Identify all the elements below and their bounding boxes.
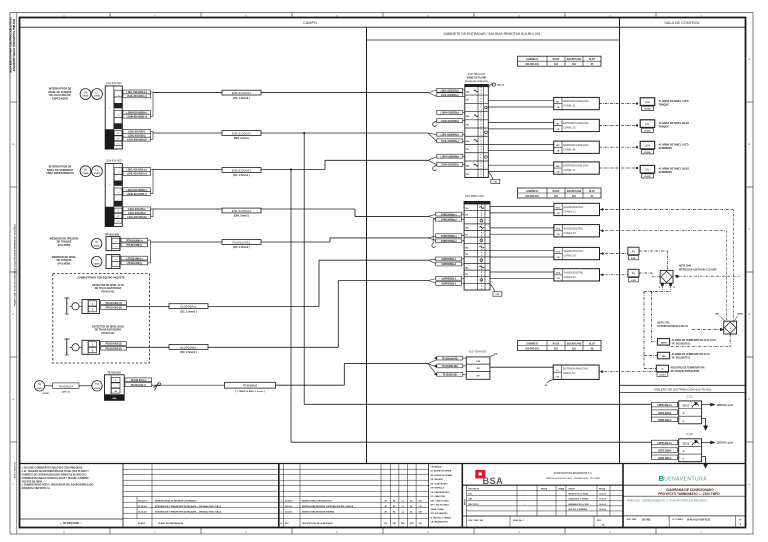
JB3b terminal - xyxy=(112,261,120,266)
drawing title area line xyxy=(623,495,746,497)
svg-text:3: 3 xyxy=(281,500,282,502)
DO ch3 to FY1 xyxy=(600,253,628,255)
svg-text:(DC. 2.5mm2 ): (DC. 2.5mm2 ) xyxy=(233,246,250,249)
junction box JB2 xyxy=(105,163,122,226)
wire tag TE-010- xyxy=(125,383,152,387)
cable TRIAD xyxy=(225,382,276,388)
svg-text:CB: INTERRUPTOR: CB: INTERRUPTOR xyxy=(431,522,449,524)
svg-text:810-RIO-001: 810-RIO-001 xyxy=(525,196,539,198)
svg-text:SALIDA DIGITAL: SALIDA DIGITAL xyxy=(564,270,584,274)
svg-text:GABINETE: GABINETE xyxy=(526,58,538,61)
wire w4 fork xyxy=(428,214,437,216)
svg-text:GABINETE: GABINETE xyxy=(526,190,538,193)
svg-text:CESAR ROJ. C. ROJAS: CESAR ROJ. C. ROJAS xyxy=(569,498,590,501)
svg-text:( 1 TRIAD 16 AWG. 1.5mm2 ): ( 1 TRIAD 16 AWG. 1.5mm2 ) xyxy=(235,390,265,393)
svg-text:PLANO DE REFERENCIA: PLANO DE REFERENCIA xyxy=(158,522,183,525)
svg-text:PLANO CAD: W-410-610-I-DW-0012: PLANO CAD: W-410-610-I-DW-00122-4.dwg FE… xyxy=(13,224,16,306)
TGAI signal to DCS xyxy=(599,371,656,373)
wire TE fork xyxy=(428,360,437,364)
svg-text:BSA: BSA xyxy=(483,476,504,486)
JB2 terminal 1+ xyxy=(114,168,122,175)
svg-text:SALIDA DIGITAL: SALIDA DIGITAL xyxy=(564,205,584,209)
card2 strip row lines xyxy=(464,210,490,212)
JB1 terminal 2SH xyxy=(114,124,122,129)
wire tag PD-002-2 xyxy=(101,346,127,350)
svg-text:PIT-610-008: PIT-610-008 xyxy=(105,232,120,236)
left margin strip line xyxy=(16,13,18,535)
right zone ticks xyxy=(746,101,754,103)
JB3a terminal + xyxy=(112,238,120,243)
svg-text:C-13: C-13 xyxy=(686,394,693,398)
svg-text:1. SE DEBE CONSIDERAR CABLEAD: 1. SE DEBE CONSIDERAR CABLEADO CON ARMAD… xyxy=(22,467,84,470)
margin file text (rotated) xyxy=(13,224,16,306)
svg-text:LIT-610-009-(-): LIT-610-009-(-) xyxy=(127,261,143,265)
svg-text:CONSIDERAN CABLES APANTALLADOS: CONSIDERAN CABLES APANTALLADOS Y SEGUN L… xyxy=(22,477,90,480)
svg-text:PD-610-001: PD-610-001 xyxy=(102,290,116,293)
wire TE segment c xyxy=(344,363,428,365)
svg-text:CANAL 05: CANAL 05 xyxy=(563,147,576,151)
svg-text:610-TBDO-001: 610-TBDO-001 xyxy=(465,194,484,198)
JB4 terminal 2 xyxy=(111,383,120,388)
revision table B columns xyxy=(283,464,285,528)
svg-text:TN: TN xyxy=(466,174,469,176)
svg-text:610P00058b-2: 610P00058b-2 xyxy=(441,283,456,286)
wire tag LSHL-005A+ xyxy=(123,168,151,172)
svg-text:610008: 610008 xyxy=(94,245,100,247)
svg-text:CAMPO: CAMPO xyxy=(303,21,317,25)
svg-text:610P00058b-1: 610P00058b-1 xyxy=(441,277,456,280)
DCS alarm block LAH 1 xyxy=(640,98,655,106)
AI tag ch4- xyxy=(437,162,463,166)
svg-text:TAHH: TAHH xyxy=(737,313,743,316)
svg-text:GND: GND xyxy=(112,398,117,400)
svg-text:AREA 610 - ESPESAMIENTO Y TRAN: AREA 610 - ESPESAMIENTO Y TRANSPORTE DE … xyxy=(627,499,708,503)
svg-text:GABINETE: GABINETE xyxy=(526,342,538,345)
wire tag LSHL-005A- xyxy=(123,171,151,175)
JB2 terminal 1- xyxy=(114,175,122,181)
cable package1 xyxy=(169,304,208,309)
svg-text:610005: 610005 xyxy=(94,173,100,175)
interlock bus riser A xyxy=(651,292,653,342)
card3 terminal strip xyxy=(466,357,490,379)
svg-text:EMITIDO PARA REVISION Y APROBA: EMITIDO PARA REVISION Y APROBACION DEL C… xyxy=(302,505,354,508)
svg-text:TE-610010+RD: TE-610010+RD xyxy=(442,357,458,360)
cable EIB-810004-2 xyxy=(222,131,261,136)
top zone ticks xyxy=(109,13,111,18)
svg-text:S/E IND.: S/E IND. xyxy=(642,519,651,521)
instrument TE 610-010 xyxy=(34,381,44,391)
svg-text:(MTC 2): (MTC 2) xyxy=(62,391,70,393)
title area divider xyxy=(623,484,746,486)
svg-text:CANAL 01: CANAL 01 xyxy=(563,371,576,375)
margin revision text top-left (rotated) xyxy=(10,17,16,73)
AI tag ch1- xyxy=(437,93,463,97)
card1 strip dashed bus xyxy=(480,87,482,178)
wire JB4 to cable xyxy=(152,384,160,386)
svg-text:W0-04-713: W0-04-713 xyxy=(138,499,147,502)
svg-text:CM: CM xyxy=(419,500,422,502)
svg-text:(DC. 2.5mm2 ): (DC. 2.5mm2 ) xyxy=(233,97,250,100)
wire w1 segment b xyxy=(261,92,428,94)
AI channel box 4 xyxy=(554,162,600,174)
package device1 terminals xyxy=(82,300,100,314)
alarm block TAHH xyxy=(657,339,669,346)
svg-text:SALIDA DIGITAL: SALIDA DIGITAL xyxy=(564,249,584,253)
instrument LM 610-005 xyxy=(80,166,91,177)
wire tag LSHL-005-2 xyxy=(123,211,151,215)
DCS alarm block LAH 3 xyxy=(640,141,655,149)
svg-text:REV.: REV. xyxy=(285,523,290,525)
TGAI tag arrows xyxy=(434,357,437,359)
svg-text:12-05-16: 12-05-16 xyxy=(599,509,606,511)
svg-text:TAHH: TAHH xyxy=(661,341,667,344)
svg-text:PROYECTO TAMBOMAYO — 2100: PROYECTO TAMBOMAYO — 2100 TMPD xyxy=(658,492,720,496)
svg-text:TE-610010-SH: TE-610010-SH xyxy=(442,373,457,376)
svg-text:(DHL 5mm2 ): (DHL 5mm2 ) xyxy=(234,215,250,218)
svg-text:GABINETE DE ENTRADAS / SALIDAS: GABINETE DE ENTRADAS / SALIDAS REMOTAS 8… xyxy=(443,32,540,36)
BSA table frame xyxy=(462,484,623,486)
cable bracket group3 xyxy=(148,240,151,263)
svg-text:TRIAD: TERNA: TRIAD: TERNA xyxy=(431,508,445,511)
svg-text:G: G xyxy=(683,459,685,461)
rack table card2 xyxy=(518,188,602,198)
svg-text:N: NEUTRO G: TIERRA: N: NEUTRO G: TIERRA xyxy=(431,516,452,519)
cable EIB-810004-3 xyxy=(222,168,261,173)
svg-text:SV/B100059a-1: SV/B100059a-1 xyxy=(441,235,458,238)
instrument TW 610-010 xyxy=(92,381,102,391)
svg-text:810-RIO-001: 810-RIO-001 xyxy=(525,348,539,350)
wire w5 riser xyxy=(329,238,331,242)
svg-text:G: G xyxy=(683,421,685,423)
card2 strip dashed bus xyxy=(480,204,482,290)
svg-text:LSHH-610-002B-(-): LSHH-610-002B-(-) xyxy=(127,114,148,118)
junction box JB1 xyxy=(105,86,122,149)
instrument LL 610-005 xyxy=(92,166,103,177)
svg-text:61005: 61005 xyxy=(631,280,636,282)
card1 fuse 250mA xyxy=(488,84,493,87)
svg-text:11-05-16: 11-05-16 xyxy=(599,499,606,501)
svg-text:EMISION INICIAL DE REVISION CO: EMISION INICIAL DE REVISION CONTINUADO xyxy=(155,499,197,502)
svg-text:N° PLANO:: N° PLANO: xyxy=(673,518,684,521)
svg-text:SH: PANTALLA: SH: PANTALLA xyxy=(431,487,445,490)
wire w2 segment a xyxy=(153,132,222,134)
svg-text:DIB.: DIB. xyxy=(469,499,473,501)
svg-text:ARMANDO RUI. A. RUIZ: ARMANDO RUI. A. RUIZ xyxy=(569,503,590,506)
svg-text:REV. PROY.: REV. PROY. xyxy=(469,504,480,506)
svg-text:TW: TW xyxy=(95,382,100,386)
svg-text:C1R: C1R xyxy=(476,361,481,363)
svg-text:SLOT: SLOT xyxy=(589,59,596,61)
wire tag PD-002-1 xyxy=(101,342,127,346)
svg-text:DHL: CABLE DOBLE: DHL: CABLE DOBLE xyxy=(431,499,450,502)
svg-text:LSHL-610002A(+): LSHL-610002A(+) xyxy=(441,89,460,92)
svg-text:PROYECTO: PROYECTO xyxy=(469,489,480,491)
DO ch4 wires xyxy=(490,271,554,273)
JB2 terminal 1SH xyxy=(114,181,122,186)
svg-text:TN: TIERRA-NEUTRO: TN: TIERRA-NEUTRO xyxy=(431,491,450,494)
gabinete header box xyxy=(367,39,620,41)
svg-text:CB-13: CB-13 xyxy=(682,405,689,407)
svg-text:SUMINISTRADO CON EQUIPO PAQUET: SUMINISTRADO CON EQUIPO PAQUETE xyxy=(77,277,125,280)
wire w3 segment c xyxy=(325,159,428,161)
package device2 sensor xyxy=(72,344,79,351)
wire package1 fork xyxy=(428,259,437,260)
svg-text:23-02-16: 23-02-16 xyxy=(285,511,293,513)
svg-text:610002: 610002 xyxy=(644,108,650,110)
JB3a terminal - xyxy=(112,243,120,248)
svg-text:610-TGAI-003: 610-TGAI-003 xyxy=(469,349,487,353)
svg-text:LSHL-610-005A-(-): LSHL-610-005A-(-) xyxy=(127,172,147,176)
wire tag LSHL-002A- xyxy=(123,94,151,98)
JB1 terminal 1- xyxy=(114,97,122,103)
interlock riser right2 xyxy=(726,231,728,322)
card1 shield circles xyxy=(485,106,488,109)
svg-text:120VAC φ1A: 120VAC φ1A xyxy=(717,403,733,407)
svg-text:ARCH: W410-610: ARCH: W410-610 xyxy=(13,461,16,478)
JB2 terminal 3-G xyxy=(114,219,122,224)
svg-text:TN: TN xyxy=(466,124,469,126)
cable EIB-810004-4 xyxy=(222,208,261,213)
svg-text:FY: FY xyxy=(632,273,635,276)
rack table card1 xyxy=(518,56,602,66)
svg-text:LSH-610-002: LSH-610-002 xyxy=(106,81,122,85)
margin archive text (rotated) xyxy=(13,461,16,478)
JB2 terminal 3-1 xyxy=(114,208,122,213)
svg-text:AREA ESPESAMIENTO: AREA ESPESAMIENTO xyxy=(46,171,74,175)
wire w3 junction xyxy=(290,169,292,171)
JB1 terminal 3-G xyxy=(114,141,122,146)
card2 bottom fuse tag xyxy=(490,284,495,292)
svg-text:CONTINUACION-610-003-02: CONTINUACION-610-003-02 xyxy=(657,325,688,328)
svg-text:250mA: 250mA xyxy=(497,84,504,87)
cable bracket group2 xyxy=(151,170,154,194)
svg-text:REV.: REV. xyxy=(597,520,602,522)
wire package2 segment c xyxy=(338,280,428,282)
JB4 terminal 3 xyxy=(111,389,120,394)
wire tag PIT-008- xyxy=(121,243,148,247)
AI ch4 signal to DCS xyxy=(599,167,637,169)
svg-text:ESC. REF.: ESC. REF. xyxy=(627,519,637,521)
wire w4 segment b xyxy=(261,208,355,210)
svg-text:LMTE 332-G: LMTE 332-G xyxy=(658,418,672,422)
AI channel box 2 xyxy=(554,119,600,131)
wire tag LSHH-005B+ xyxy=(123,188,151,192)
svg-text:ENTRADA ANALOGA: ENTRADA ANALOGA xyxy=(563,143,589,147)
instrument LL 610-002 xyxy=(92,89,103,100)
TGAI tag 2 xyxy=(437,364,463,368)
svg-text:PD-610-002: PD-610-002 xyxy=(102,332,116,335)
wire TE to cable xyxy=(45,385,53,387)
svg-text:CANAL 07: CANAL 07 xyxy=(563,168,576,172)
svg-text:LSHL-610-005-1: LSHL-610-005-1 xyxy=(128,207,146,211)
svg-text:610005: 610005 xyxy=(644,176,650,178)
cable tag MTC xyxy=(53,383,79,388)
svg-text:CM: CM xyxy=(419,506,422,508)
svg-text:SV/B100058a-2: SV/B100058a-2 xyxy=(441,218,458,221)
svg-text:W-410-610-I-DW-0122: W-410-610-I-DW-0122 xyxy=(687,518,711,521)
alarm block TAH xyxy=(657,352,669,359)
wire tag LIT-009+ xyxy=(121,256,148,260)
svg-text:610005: 610005 xyxy=(644,152,650,154)
wire w1 fork to tags xyxy=(428,90,437,93)
svg-text:BACKPLANE: BACKPLANE xyxy=(567,342,582,345)
interlock reference line xyxy=(678,275,740,277)
AI tag stubs xyxy=(463,89,465,91)
svg-text:810P008b1: 810P008b1 xyxy=(180,345,197,349)
svg-text:APROBADO SEGUN TRANSMITTAL TMB: APROBADO SEGUN TRANSMITTAL TMB-0643 xyxy=(13,18,16,71)
wire package1 riser xyxy=(318,260,320,306)
svg-text:RACK: RACK xyxy=(553,342,560,345)
wire w3 segment a xyxy=(153,169,222,171)
svg-text:ENTRADA ANALOGA: ENTRADA ANALOGA xyxy=(563,164,589,168)
svg-text:LSHH-610002B(-): LSHH-610002B(-) xyxy=(441,120,459,123)
svg-text:610P00058a-2: 610P00058a-2 xyxy=(441,263,456,266)
svg-text:PIT-610-008-(+): PIT-610-008-(+) xyxy=(126,238,143,242)
wire package2 fork xyxy=(428,279,437,281)
wire w1 segment a xyxy=(153,92,222,94)
svg-text:REGISTRO DE TEMPERATURA: REGISTRO DE TEMPERATURA xyxy=(671,366,705,369)
svg-text:TE-610-010-(+): TE-610-010-(+) xyxy=(130,378,146,382)
JB1 terminal 2- xyxy=(114,117,122,123)
wire cable to TW xyxy=(79,385,92,387)
svg-text:TANQUE: TANQUE xyxy=(659,126,670,129)
BSA bottom row xyxy=(462,515,623,517)
wire tag LSHH-005B- xyxy=(123,192,151,196)
svg-text:ALARMA DE TEMPERATURA ALTA: ALARMA DE TEMPERATURA ALTA xyxy=(672,353,710,356)
svg-text:610010: 610010 xyxy=(94,388,100,390)
svg-text:APROB.: APROB. xyxy=(464,498,467,505)
svg-text:LSHL-610-002-(G): LSHL-610-002-(G) xyxy=(127,137,147,141)
svg-text:TK- 001 (NOTA 2): TK- 001 (NOTA 2) xyxy=(672,356,691,359)
svg-text:LSHH-610005B(+): LSHH-610005B(+) xyxy=(441,155,460,158)
wire tag LSHL-002-2 xyxy=(123,133,151,137)
svg-text:(PAQUETE) VER NOTA 2 A.: (PAQUETE) VER NOTA 2 A. xyxy=(22,487,51,490)
AI tag ch1+ xyxy=(437,88,463,92)
junction box JB3a xyxy=(106,237,120,251)
wire w3 fork xyxy=(428,157,437,161)
wire w5 segment a xyxy=(151,241,223,243)
svg-text:TK- 001 (NOTA 2): TK- 001 (NOTA 2) xyxy=(672,343,691,346)
svg-text:ENTRADA ANALOGA: ENTRADA ANALOGA xyxy=(563,121,589,125)
junction box JB4 xyxy=(105,375,125,401)
wire tag LSHH-002B- xyxy=(123,114,151,118)
svg-text:LSH-610-005: LSH-610-005 xyxy=(106,159,122,163)
cable package2 xyxy=(169,345,208,350)
svg-text:SLOT: SLOT xyxy=(589,343,596,345)
svg-text:SALA DE CONTROL: SALA DE CONTROL xyxy=(664,21,699,25)
svg-text:FECHA: FECHA xyxy=(599,488,606,491)
wire tag LIT-009- xyxy=(121,261,148,265)
svg-text:LAL: LAL xyxy=(645,168,650,172)
svg-text:ALARMA DE TEMPERATURA ALTA ALT: ALARMA DE TEMPERATURA ALTA ALTA xyxy=(672,339,717,342)
wire w4 segment a xyxy=(153,208,222,210)
wire tag TE-010+ xyxy=(125,378,152,382)
svg-text:PA/B100051: PA/B100051 xyxy=(232,240,250,244)
svg-text:LM: LM xyxy=(84,168,88,172)
svg-text:BACKPLANE: BACKPLANE xyxy=(567,190,582,193)
wire tag PIT-008+ xyxy=(121,238,148,242)
svg-text:ENTRADA ANALOGA: ENTRADA ANALOGA xyxy=(563,367,589,371)
svg-text:TAH: TAH xyxy=(715,313,720,316)
instrument LI 610-009 xyxy=(92,256,102,266)
svg-text:TE-610-010-(-): TE-610-010-(-) xyxy=(131,383,146,387)
svg-text:INTEGRACION Y TRANSPORTE DE RE: INTEGRACION Y TRANSPORTE DE RELAVES — OR… xyxy=(155,505,221,508)
svg-text:TE: TE xyxy=(38,382,42,386)
interlock riser right1 xyxy=(733,209,735,321)
cable EIB-810004-1 xyxy=(222,90,261,95)
wire package1 segment a xyxy=(127,306,170,308)
DO bracket hook xyxy=(433,219,436,243)
AI ch3 signal to DCS xyxy=(599,146,637,148)
I2 note line xyxy=(692,329,722,331)
svg-text:SH: SH xyxy=(477,376,480,378)
FY2 to interlock xyxy=(639,273,660,277)
revision table B rows xyxy=(279,468,429,470)
DO tag stubs xyxy=(462,213,464,215)
AI tag ch3- xyxy=(437,139,463,143)
svg-text:610010: 610010 xyxy=(659,375,665,377)
DO channel box 1 xyxy=(554,203,600,215)
svg-text:LSHL-610002A(-): LSHL-610002A(-) xyxy=(441,94,459,97)
svg-text:FIRMA: FIRMA xyxy=(559,488,565,491)
package device2 probe xyxy=(66,339,68,355)
svg-text:(DC. 2.5mm2 ): (DC. 2.5mm2 ) xyxy=(180,310,197,313)
svg-text:LMTE 332-N: LMTE 332-N xyxy=(658,411,672,415)
svg-text:CANAL 01: CANAL 01 xyxy=(564,210,577,214)
svg-text:LIT-610-009-(+): LIT-610-009-(+) xyxy=(126,256,142,260)
svg-text:LSHL-610-002A-(-): LSHL-610-002A-(-) xyxy=(127,94,147,98)
DO tag ch2-1 xyxy=(436,234,462,238)
interlock box I1 xyxy=(660,270,673,283)
wire w3 segment b xyxy=(261,169,325,171)
DO ch4 to FY2 xyxy=(600,274,628,276)
wire package2 segment b xyxy=(208,346,338,348)
svg-text:610002: 610002 xyxy=(94,96,100,98)
rack table card3 xyxy=(518,341,602,351)
card1 terminal strip xyxy=(465,85,489,178)
svg-text:LSHL-610005A(+): LSHL-610005A(+) xyxy=(441,133,460,136)
svg-text:BUENAVENTURA INGENIEROS S.A.: BUENAVENTURA INGENIEROS S.A. xyxy=(554,472,593,475)
wire package1 segment c xyxy=(319,259,428,261)
wire tag LSHL-005-G xyxy=(123,215,151,219)
svg-text:LAH: LAH xyxy=(645,100,650,104)
wire tag PD-001-2 xyxy=(101,306,127,310)
AI channel box 3 xyxy=(554,141,600,153)
svg-text:09-03-16: 09-03-16 xyxy=(285,506,293,508)
package device1 sensor xyxy=(72,303,79,310)
svg-text:CANAL 01: CANAL 01 xyxy=(563,104,576,108)
svg-text:FY: FY xyxy=(632,251,635,254)
svg-text:CM: CM xyxy=(419,511,422,513)
svg-text:EMITIDO PARA CONSTRUCCION: EMITIDO PARA CONSTRUCCION xyxy=(302,499,332,502)
JB2 terminal 2SH xyxy=(114,201,122,206)
zone divider campo/gabinete xyxy=(366,27,368,463)
interlock bus riser C xyxy=(643,292,645,369)
JB4 lower band xyxy=(105,395,125,401)
BSA logo red square xyxy=(476,470,486,478)
title bottom row xyxy=(623,515,746,517)
svg-text:— NO REQUIERE —: — NO REQUIERE — xyxy=(60,523,83,525)
AI tag ch2+ xyxy=(437,110,463,114)
svg-text:NOTA 1740: NOTA 1740 xyxy=(657,321,670,324)
wire w3 riser xyxy=(324,160,326,169)
AI tag ch2- xyxy=(437,119,463,123)
svg-text:DATOS: DATOS xyxy=(569,488,576,491)
svg-text:2. EL TABLERO DE DISTRIBUCION: 2. EL TABLERO DE DISTRIBUCION 810-TD-001… xyxy=(22,470,90,473)
svg-text:610002: 610002 xyxy=(83,96,89,98)
svg-text:PLAN P: PLAN P xyxy=(138,522,146,525)
svg-text:SALIDA DIGITAL: SALIDA DIGITAL xyxy=(564,226,584,230)
